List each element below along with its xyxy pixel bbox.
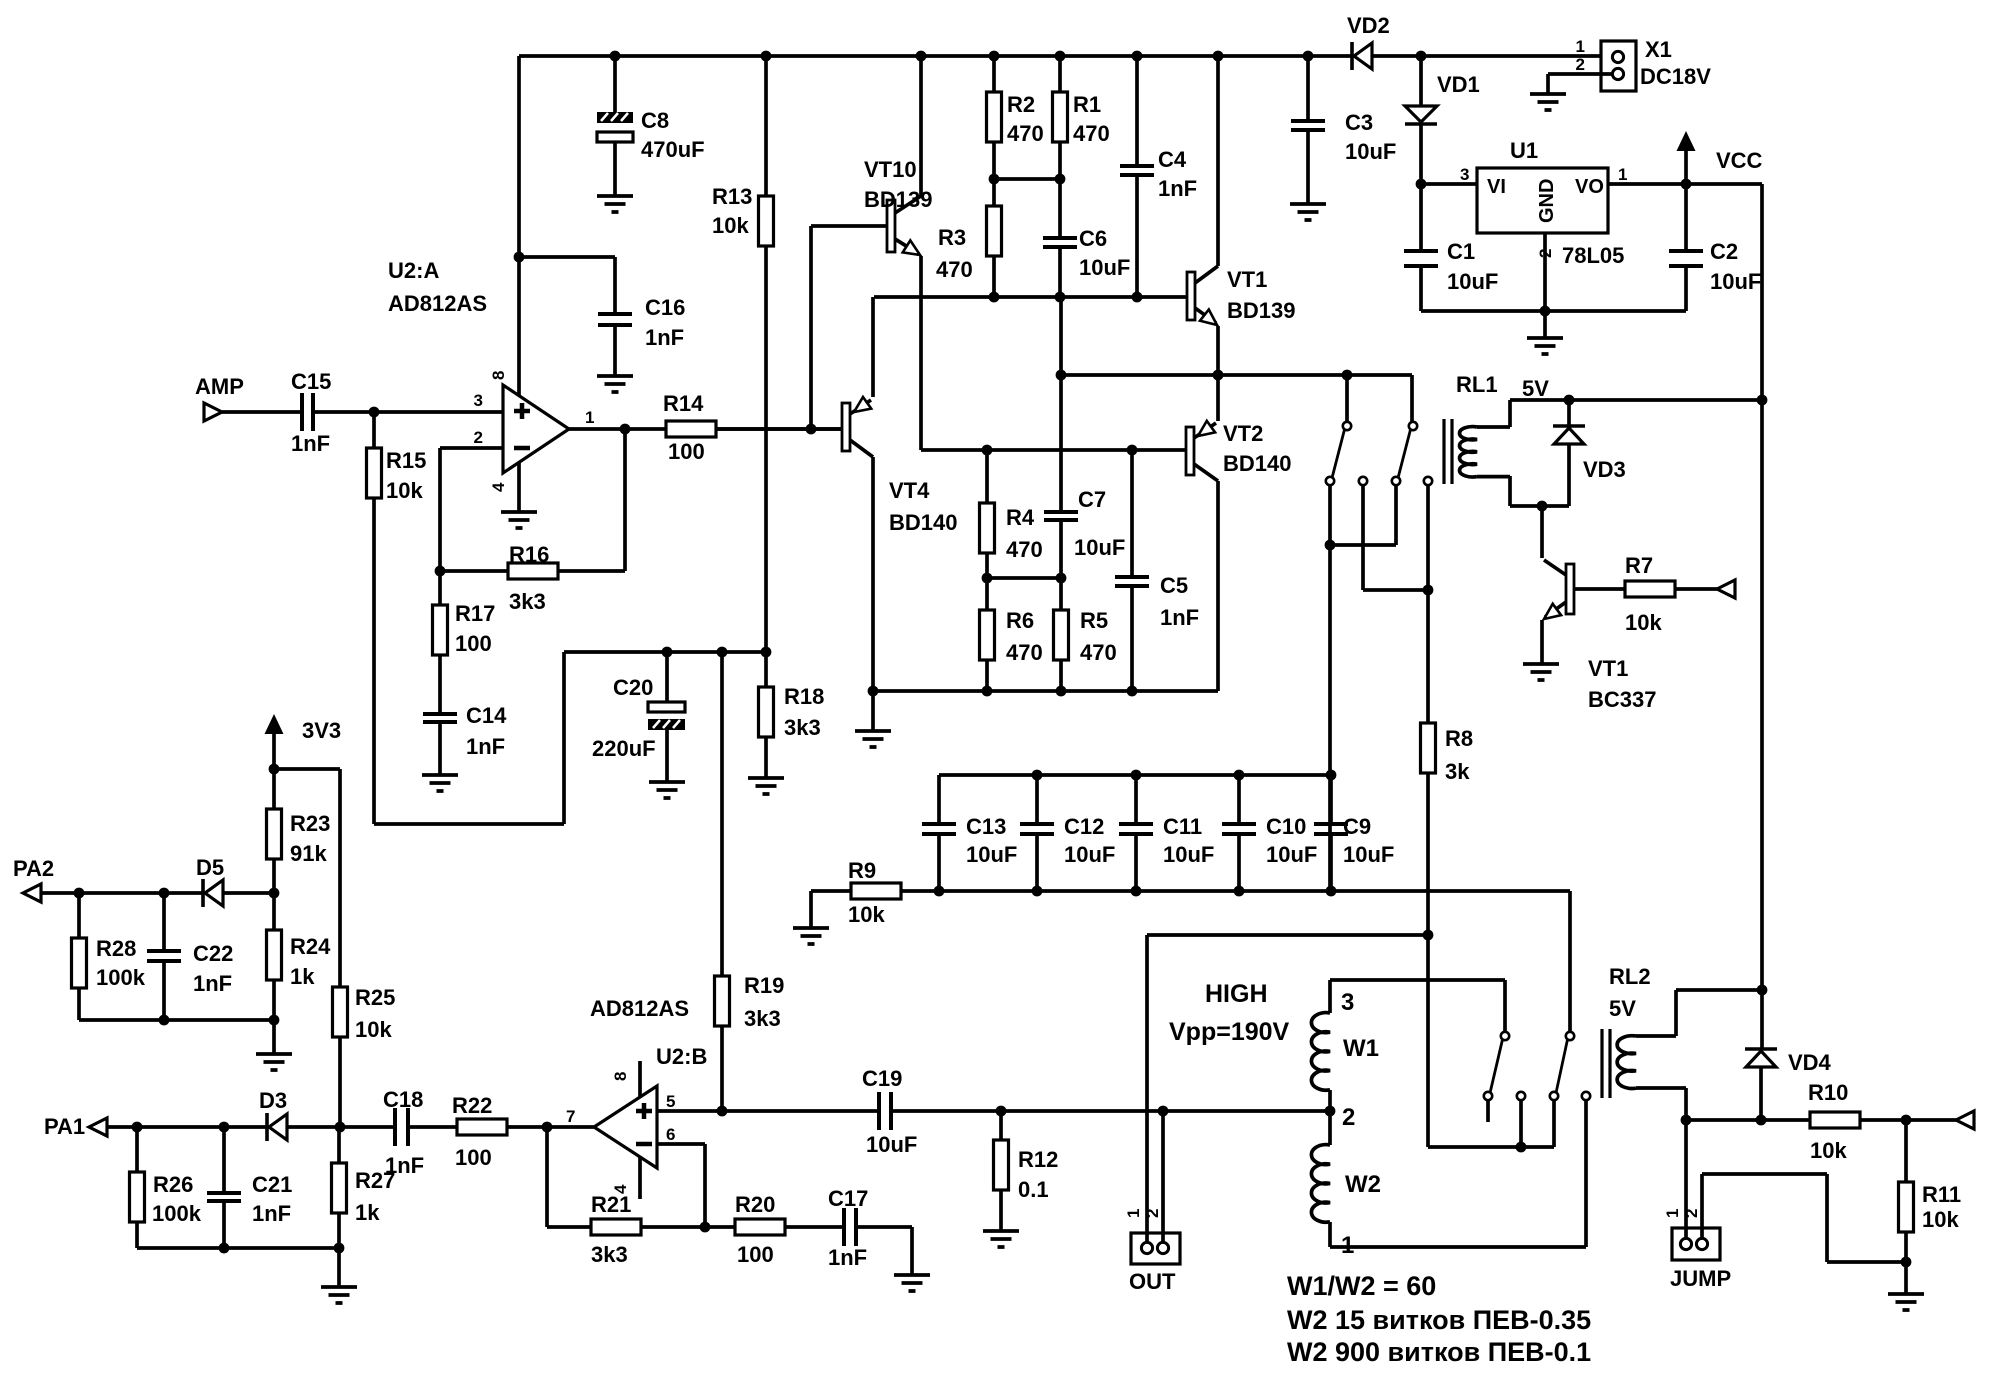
svg-text:10k: 10k	[1625, 610, 1662, 635]
capacitor C2 10uF	[1684, 184, 1688, 251]
relay RL1 coil	[1460, 427, 1477, 477]
ground: VT1 emitter	[1523, 664, 1559, 680]
svg-text:R7: R7	[1625, 553, 1653, 578]
wire: D3 to C18	[287, 1125, 393, 1129]
svg-text:W2 900 витков ПЕВ-0.1: W2 900 витков ПЕВ-0.1	[1287, 1337, 1591, 1367]
wire: emitter resistor bottom rail y691	[873, 689, 1218, 693]
svg-text:R24: R24	[290, 934, 331, 959]
wire: pin2 input	[440, 446, 503, 450]
svg-text:C13: C13	[966, 814, 1006, 839]
svg-text:3k3: 3k3	[784, 715, 821, 740]
svg-text:R5: R5	[1080, 608, 1108, 633]
capacitor C15 1nF	[302, 393, 313, 431]
svg-text:10k: 10k	[1922, 1207, 1959, 1232]
wire: R24 to ground	[272, 1020, 276, 1054]
svg-text:1: 1	[1618, 165, 1627, 184]
svg-text:R22: R22	[452, 1093, 492, 1118]
svg-text:AMP: AMP	[195, 374, 244, 399]
svg-text:R11: R11	[1922, 1182, 1961, 1207]
resistor R5 470	[1059, 578, 1063, 610]
transformer T1 winding W2	[1328, 1111, 1332, 1145]
svg-text:1nF: 1nF	[1158, 176, 1197, 201]
svg-text:R8: R8	[1445, 726, 1473, 751]
capacitor C11 10uF	[1134, 775, 1138, 824]
capacitor C16 1nF	[613, 257, 617, 314]
svg-text:R9: R9	[848, 858, 876, 883]
capacitor C21 1nF	[222, 1127, 226, 1193]
svg-text:3k3: 3k3	[591, 1242, 628, 1267]
svg-text:C6: C6	[1079, 226, 1107, 251]
wire: VI input	[1421, 182, 1477, 186]
wire: R20 to C17	[785, 1225, 842, 1229]
diode VD3	[1567, 400, 1571, 426]
wire: R28/C22 bottom row	[79, 1018, 274, 1022]
svg-text:R13: R13	[712, 184, 752, 209]
svg-text:1: 1	[1124, 1209, 1143, 1218]
capacitor C14 1nF	[423, 714, 457, 722]
ground: C20	[649, 782, 685, 798]
wire: OUT pin1 riser	[1145, 935, 1149, 1243]
wire: pole stubs to bottom link	[1519, 1100, 1523, 1147]
svg-text:R21: R21	[591, 1192, 631, 1217]
svg-text:C7: C7	[1078, 487, 1106, 512]
ground: R11	[1888, 1294, 1924, 1310]
svg-text:U2:B: U2:B	[656, 1044, 707, 1069]
resistor R15 10k	[372, 412, 376, 448]
capacitor C12 10uF	[1035, 775, 1039, 824]
wire: R4/C7 link y578	[987, 576, 1061, 580]
ground: C16	[597, 376, 633, 392]
svg-text:470: 470	[1080, 640, 1117, 665]
svg-text:W2: W2	[1345, 1171, 1381, 1198]
wire: PA1 row	[107, 1125, 266, 1129]
wire: OUT pin2 riser	[1161, 1111, 1165, 1243]
svg-text:R25: R25	[355, 985, 395, 1010]
svg-text:C8: C8	[641, 108, 669, 133]
svg-text:10uF: 10uF	[866, 1132, 917, 1157]
svg-text:D5: D5	[196, 855, 224, 880]
svg-text:C5: C5	[1160, 573, 1188, 598]
wire: pin8 supply link	[514, 252, 525, 263]
svg-text:OUT: OUT	[1129, 1269, 1176, 1294]
power VCC arrow	[1684, 150, 1688, 184]
wire: bias row to VT1 base	[874, 295, 1187, 299]
svg-text:1k: 1k	[355, 1200, 380, 1225]
capacitor C13 10uF	[937, 775, 941, 824]
capacitor C19 10uF	[879, 1092, 891, 1130]
diode VD2	[1350, 42, 1354, 70]
svg-text:1nF: 1nF	[466, 734, 505, 759]
wire: cap bank top rail y775	[939, 773, 1331, 777]
resistor R8 3k	[1426, 590, 1430, 723]
resistor R24 1k	[272, 893, 276, 930]
wire: R16 to inverting node	[440, 569, 508, 573]
svg-text:5V: 5V	[1609, 996, 1636, 1021]
relay RL2 contact poles	[1517, 1092, 1525, 1100]
svg-text:6: 6	[666, 1125, 675, 1144]
wire: NC stub	[1486, 1100, 1490, 1122]
ground: R27	[321, 1287, 357, 1303]
svg-text:C16: C16	[645, 295, 685, 320]
wire: contact riser left	[1345, 375, 1349, 422]
capacitor C10 10uF	[1237, 775, 1241, 824]
transistor VT1 BC337	[1566, 564, 1574, 614]
svg-text:C10: C10	[1266, 814, 1306, 839]
resistor R14 100	[666, 421, 716, 437]
wire: JUMP pin2 link to R11	[1702, 1174, 1906, 1262]
wire: VT10 base riser	[809, 226, 813, 429]
svg-text:C11: C11	[1163, 814, 1202, 839]
svg-text:BD140: BD140	[889, 510, 957, 535]
svg-text:2: 2	[474, 428, 483, 447]
svg-text:JUMP: JUMP	[1670, 1266, 1731, 1291]
diode D5	[201, 879, 205, 907]
svg-text:100: 100	[455, 1145, 492, 1170]
svg-text:C2: C2	[1710, 239, 1738, 264]
svg-text:C19: C19	[862, 1066, 902, 1091]
capacitor C3 10uF	[1306, 56, 1310, 121]
svg-text:1nF: 1nF	[193, 971, 232, 996]
wire: C1-GND-C2 bottom rail	[1421, 309, 1686, 313]
wire: pole link y545	[1328, 485, 1332, 545]
svg-text:2: 2	[1576, 55, 1585, 74]
svg-text:C4: C4	[1158, 147, 1187, 172]
svg-text:470: 470	[1007, 121, 1044, 146]
wire: contact to R8 top	[1426, 485, 1430, 590]
wire: feedback from output	[559, 429, 625, 571]
ground: U2:A pin4	[501, 512, 537, 528]
ground: R18	[748, 778, 784, 794]
svg-text:VT1: VT1	[1588, 656, 1628, 681]
wire: pole to cap bank	[1328, 545, 1332, 891]
wire: VT2 base row y450	[921, 448, 1186, 452]
wire: VO output	[1608, 182, 1686, 186]
svg-text:470: 470	[1006, 640, 1043, 665]
wire: emitter bus y375	[1061, 373, 1412, 377]
svg-text:470: 470	[1073, 121, 1110, 146]
capacitor C18 1nF	[395, 1108, 408, 1146]
svg-text:10uF: 10uF	[966, 842, 1017, 867]
svg-text:RL1: RL1	[1456, 372, 1498, 397]
resistor R28 100k	[77, 893, 81, 938]
wire: cap bank bottom rail / R9 net	[901, 889, 1570, 893]
wire: PA2 row	[41, 891, 202, 895]
svg-text:HIGH: HIGH	[1205, 980, 1268, 1008]
diode VD4	[1760, 990, 1764, 1049]
capacitor C5 1nF	[1130, 450, 1134, 577]
relay RL2 contact 1	[1501, 1032, 1509, 1040]
svg-text:3k: 3k	[1445, 759, 1470, 784]
svg-text:0.1: 0.1	[1018, 1177, 1049, 1202]
svg-text:100: 100	[455, 631, 492, 656]
svg-text:PA1: PA1	[44, 1114, 85, 1139]
svg-text:10k: 10k	[355, 1017, 392, 1042]
svg-text:1: 1	[1576, 37, 1585, 56]
svg-text:C20: C20	[613, 675, 653, 700]
svg-text:RL2: RL2	[1609, 964, 1651, 989]
node: top rail junction	[610, 51, 621, 62]
ground: X1 pin2	[1530, 94, 1566, 110]
wire: D5 anode to divider	[223, 891, 274, 895]
ground: C8	[597, 196, 633, 212]
wire: JUMP pin1 riser	[1684, 1120, 1688, 1238]
svg-text:R26: R26	[153, 1172, 193, 1197]
svg-text:W1/W2 = 60: W1/W2 = 60	[1287, 1271, 1436, 1301]
svg-text:VT1: VT1	[1227, 267, 1267, 292]
resistor R10 10k	[1810, 1112, 1860, 1128]
resistor R13 10k	[764, 56, 768, 196]
relay RL1 contact poles	[1359, 477, 1367, 485]
connector JUMP	[1672, 1228, 1720, 1260]
svg-text:U2:A: U2:A	[388, 258, 439, 283]
svg-text:10k: 10k	[1810, 1138, 1847, 1163]
svg-text:C21: C21	[252, 1172, 292, 1197]
diode VD1	[1419, 56, 1423, 106]
svg-text:91k: 91k	[290, 841, 327, 866]
connector arrow (R10 input)	[1956, 1111, 1974, 1129]
wire: C15 to op-amp	[315, 410, 503, 414]
svg-text:C9: C9	[1343, 814, 1371, 839]
wire: R10 to arrow	[1860, 1118, 1956, 1122]
svg-text:R16: R16	[509, 542, 549, 567]
svg-text:10uF: 10uF	[1079, 255, 1130, 280]
wire: base to R7	[1574, 587, 1625, 591]
svg-text:R17: R17	[455, 601, 495, 626]
svg-text:3: 3	[1460, 165, 1469, 184]
svg-text:C22: C22	[193, 941, 233, 966]
svg-text:R10: R10	[1808, 1080, 1848, 1105]
wire: pin6 feedback	[657, 1144, 705, 1227]
resistor R22 100	[457, 1119, 507, 1135]
resistor R25 10k	[333, 987, 348, 1037]
svg-text:C18: C18	[383, 1087, 423, 1112]
svg-text:BD140: BD140	[1223, 451, 1291, 476]
wire: op-amp A output	[569, 427, 666, 431]
resistor R17 100	[438, 571, 442, 605]
svg-text:BD139: BD139	[864, 187, 932, 212]
node: VT4 collector/ground	[868, 686, 879, 697]
relay RL1 contact 1	[1343, 422, 1351, 430]
svg-text:VD3: VD3	[1583, 457, 1626, 482]
power 3V3 arrow	[265, 714, 284, 734]
svg-text:VT4: VT4	[889, 478, 930, 503]
svg-text:VT2: VT2	[1223, 421, 1263, 446]
svg-text:10uF: 10uF	[1163, 842, 1214, 867]
resistor R7 10k	[1625, 581, 1675, 597]
wire: coil bottom to VT1 collector	[1477, 476, 1569, 506]
wire: R7 to input arrow	[1675, 587, 1717, 591]
node: top rail junction	[1132, 51, 1143, 62]
svg-text:1nF: 1nF	[828, 1245, 867, 1270]
svg-text:C1: C1	[1447, 239, 1475, 264]
svg-text:VD4: VD4	[1788, 1050, 1832, 1075]
resistor R21 3k3	[591, 1219, 641, 1235]
svg-text:R14: R14	[663, 391, 704, 416]
resistor R1 470	[1058, 56, 1062, 92]
capacitor C1 10uF	[1419, 184, 1423, 251]
svg-text:VT10: VT10	[864, 157, 917, 182]
resistor R2 470	[992, 56, 996, 92]
wire: U1 GND pin	[1543, 233, 1547, 311]
svg-text:VD1: VD1	[1437, 72, 1480, 97]
connector arrow PA1	[89, 1118, 107, 1136]
svg-text:GND: GND	[1536, 179, 1558, 223]
resistor R27 1k	[337, 1127, 341, 1163]
resistor R20 100	[735, 1219, 785, 1235]
svg-text:R4: R4	[1006, 505, 1035, 530]
capacitor C9 10uF	[1329, 775, 1333, 824]
wire: +18V top rail	[519, 54, 1352, 58]
svg-text:10uF: 10uF	[1074, 535, 1125, 560]
relay RL2 coil core	[1602, 1029, 1610, 1098]
svg-text:R20: R20	[735, 1192, 775, 1217]
svg-text:3k3: 3k3	[509, 589, 546, 614]
svg-text:VO: VO	[1575, 176, 1604, 198]
svg-text:R15: R15	[386, 448, 426, 473]
svg-text:10k: 10k	[386, 478, 423, 503]
node: top rail junction	[761, 51, 772, 62]
wire: R9 to ground	[811, 891, 851, 928]
ground: C3	[1290, 204, 1326, 220]
svg-text:100: 100	[668, 439, 705, 464]
svg-text:C12: C12	[1064, 814, 1104, 839]
svg-text:100k: 100k	[152, 1201, 202, 1226]
svg-text:W2 15 витков ПЕВ-0.35: W2 15 витков ПЕВ-0.35	[1287, 1305, 1591, 1335]
svg-text:AD812AS: AD812AS	[590, 996, 689, 1021]
svg-text:BD139: BD139	[1227, 298, 1295, 323]
ground: R9	[793, 928, 829, 944]
wire: main right rail down	[1760, 400, 1764, 990]
svg-text:R23: R23	[290, 811, 330, 836]
svg-text:1: 1	[1663, 1209, 1682, 1218]
resistor R18 3k3	[764, 652, 768, 687]
svg-text:R19: R19	[744, 973, 784, 998]
wire: R10 row	[1686, 1118, 1810, 1122]
connector X1 DC18V	[1601, 41, 1636, 91]
svg-text:1nF: 1nF	[385, 1153, 424, 1178]
svg-text:220uF: 220uF	[592, 736, 656, 761]
node: top rail junction	[1213, 51, 1224, 62]
transistor VT1 BD139 (upper)	[1187, 272, 1195, 320]
svg-text:W1: W1	[1343, 1035, 1379, 1062]
wire: contact riser right	[1410, 375, 1414, 422]
op-amp U2:B	[594, 1086, 657, 1168]
op-amp U2:A	[517, 257, 521, 396]
svg-text:R6: R6	[1006, 608, 1034, 633]
regulator U1 78L05	[1477, 168, 1608, 233]
svg-text:470uF: 470uF	[641, 137, 705, 162]
ground: R24	[256, 1054, 292, 1070]
svg-text:100k: 100k	[96, 965, 146, 990]
transistor VT10 BD139	[887, 200, 895, 252]
svg-text:1k: 1k	[290, 964, 315, 989]
svg-text:1nF: 1nF	[1160, 605, 1199, 630]
wire: VCC to right rail	[1686, 184, 1762, 400]
svg-text:1nF: 1nF	[291, 431, 330, 456]
resistor R26 100k	[135, 1127, 139, 1172]
ground: U1	[1527, 338, 1563, 354]
svg-text:D3: D3	[259, 1088, 287, 1113]
ground: VT4 collector rail	[855, 731, 891, 747]
wire: C17 to ground	[858, 1227, 912, 1275]
svg-text:Vpp=190V: Vpp=190V	[1169, 1018, 1290, 1046]
wire: C19 to output node	[893, 1109, 1330, 1113]
connector OUT	[1131, 1233, 1180, 1264]
connector arrow AMP	[204, 403, 222, 421]
svg-text:78L05: 78L05	[1562, 243, 1624, 268]
capacitor C20 (polarized 220uF)	[665, 652, 669, 702]
node: VD1/U1 VI	[1416, 179, 1427, 190]
svg-text:X1: X1	[1645, 37, 1672, 62]
ground: R12	[983, 1231, 1019, 1247]
svg-text:VI: VI	[1487, 176, 1506, 198]
svg-text:100: 100	[737, 1242, 774, 1267]
svg-text:C17: C17	[828, 1186, 868, 1211]
capacitor C22 1nF	[162, 893, 166, 951]
wire: R15 bottom loop to filter node	[374, 652, 766, 824]
ground: C14	[422, 775, 458, 791]
svg-text:C3: C3	[1345, 110, 1373, 135]
svg-text:1nF: 1nF	[645, 325, 684, 350]
resistor R16 3k3	[508, 563, 558, 579]
wire: pin5 row	[657, 1109, 878, 1113]
svg-text:1: 1	[585, 408, 594, 427]
svg-text:10uF: 10uF	[1345, 139, 1396, 164]
svg-text:3: 3	[1341, 989, 1354, 1016]
svg-text:4: 4	[489, 482, 508, 492]
wire: R2/R1 bottom link	[994, 177, 1060, 181]
svg-text:10k: 10k	[712, 213, 749, 238]
svg-text:10uF: 10uF	[1064, 842, 1115, 867]
wire: to ground	[337, 1248, 341, 1287]
svg-text:470: 470	[1006, 537, 1043, 562]
capacitor C8 (polarized 470uF)	[613, 56, 617, 112]
svg-text:R12: R12	[1018, 1147, 1058, 1172]
svg-text:470: 470	[936, 257, 973, 282]
transformer T1 winding W1	[1328, 980, 1332, 1013]
svg-text:5: 5	[666, 1092, 675, 1111]
wire: coil top to VCC rail	[1477, 400, 1762, 427]
wire: pin1 to switch column y935	[1147, 933, 1428, 937]
svg-text:R1: R1	[1073, 92, 1101, 117]
svg-text:5V: 5V	[1522, 376, 1549, 401]
svg-text:VD2: VD2	[1347, 13, 1390, 38]
ground: C17	[894, 1275, 930, 1291]
node: top rail junction	[1055, 51, 1066, 62]
svg-text:10uF: 10uF	[1710, 269, 1761, 294]
resistor R6 470	[985, 578, 989, 610]
svg-text:U1: U1	[1510, 138, 1538, 163]
wire: contact2 riser to cap bank net	[1568, 891, 1572, 1031]
node: top rail junction	[1303, 51, 1314, 62]
svg-text:8: 8	[611, 1072, 630, 1081]
relay RL2 coil	[1617, 1036, 1636, 1089]
node: top rail junction	[916, 51, 927, 62]
wire: rail left drop to U2:A pin8 node	[517, 56, 521, 257]
svg-text:3V3: 3V3	[302, 718, 341, 743]
resistor R11 10k	[1904, 1120, 1908, 1182]
svg-text:R18: R18	[784, 684, 824, 709]
svg-text:1nF: 1nF	[252, 1201, 291, 1226]
svg-text:DC18V: DC18V	[1640, 64, 1711, 89]
wire: coil bottom to R10 node	[1636, 1088, 1686, 1120]
diode D3	[265, 1113, 269, 1141]
svg-text:BC337: BC337	[1588, 687, 1656, 712]
resistor R12 0.1	[999, 1111, 1003, 1140]
svg-text:3: 3	[474, 391, 483, 410]
wire: C18 to R22	[410, 1125, 457, 1129]
relay RL1 coil core	[1444, 419, 1452, 484]
